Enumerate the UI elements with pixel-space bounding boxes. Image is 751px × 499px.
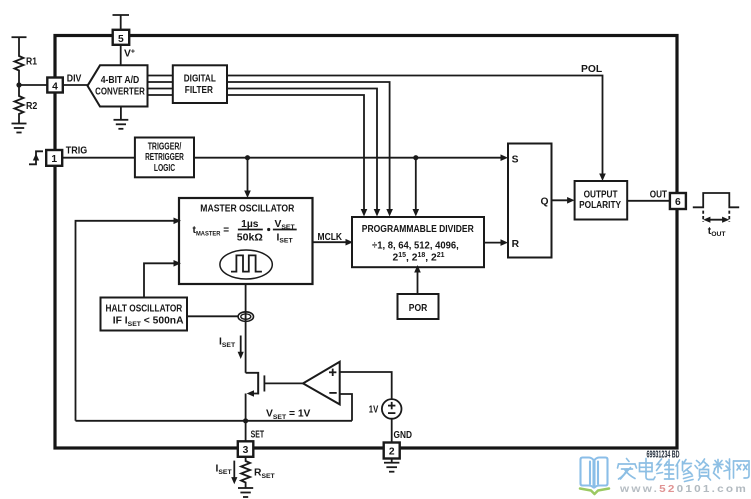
wire pin4 to A/D point (63, 84, 89, 86)
svg-text:4-BIT A/D: 4-BIT A/D (101, 75, 140, 86)
svg-text:Q: Q (540, 197, 548, 208)
ground below RSET (238, 488, 253, 497)
wire Q to output polarity (552, 197, 575, 204)
svg-text:4: 4 (52, 81, 58, 92)
wire node to pin 4 (19, 84, 48, 86)
watermark hanzi wei (657, 459, 675, 479)
supply bar above pin 5 (113, 15, 130, 30)
SR latch (508, 144, 552, 258)
svg-text:OUT: OUT (650, 189, 668, 200)
master oscillator formula tMASTER = 1us/50k * VSET/ISET (193, 219, 297, 245)
watermark hanzi xiu (676, 460, 693, 482)
svg-text:FILTER: FILTER (185, 85, 214, 96)
bus A/D to filter (4 lines) (148, 76, 173, 96)
ISET arrow at RSET (216, 461, 238, 485)
feedback wire left loop into oscillator (76, 218, 182, 421)
output polarity block (575, 181, 628, 220)
svg-text:IF ISET < 500nA: IF ISET < 500nA (113, 316, 184, 328)
svg-text:1µs: 1µs (241, 219, 259, 230)
svg-text:R: R (512, 239, 520, 250)
wire V+ pin5 to A/D (120, 45, 122, 66)
wire POR to divider (414, 265, 421, 294)
resistor R2 (15, 85, 24, 124)
svg-text:SET: SET (251, 430, 265, 441)
wire divider to R input (484, 239, 508, 246)
pin 4 (47, 78, 63, 93)
svg-text:DIGITAL: DIGITAL (184, 74, 216, 85)
output waveform (693, 193, 739, 238)
watermark hanzi liao (714, 459, 731, 479)
wire R1 to node (18, 73, 20, 86)
POR block (398, 294, 439, 319)
svg-text:POLARITY: POLARITY (579, 200, 621, 211)
node A junction (16, 82, 21, 87)
pin 6 (670, 193, 686, 209)
svg-text:GND: GND (394, 430, 413, 441)
watermark hanzi wang (734, 461, 750, 478)
watermark hanzi zi (695, 459, 711, 480)
svg-text:2: 2 (389, 447, 395, 458)
pin 3 (238, 441, 254, 457)
ground below A/D (114, 107, 129, 129)
filter bus line 3 to divider (227, 89, 380, 217)
resistor RSET (241, 457, 275, 488)
resistor R1 (15, 54, 24, 73)
pin 5 (113, 30, 130, 45)
op-amp - input feedback wire (340, 394, 352, 421)
supply bar above R1 (12, 37, 27, 54)
trigger/retrigger logic (135, 138, 194, 178)
wire output polarity to pin 6 (627, 200, 670, 202)
svg-text:R2: R2 (26, 101, 38, 112)
svg-text:www.520101.com: www.520101.com (619, 483, 748, 495)
wire junction down to master oscillator (244, 158, 251, 198)
svg-text:MCLK: MCLK (318, 232, 343, 243)
svg-text:69931234 BD: 69931234 BD (647, 450, 680, 461)
ground below pin 2 (384, 459, 399, 472)
svg-text:5: 5 (118, 34, 124, 45)
svg-text:OUTPUT: OUTPUT (584, 190, 618, 201)
svg-text:TRIG: TRIG (66, 146, 87, 157)
current monitor symbol (238, 312, 253, 322)
svg-text:1: 1 (51, 154, 57, 165)
trigger edge symbol (29, 151, 43, 164)
ISET current arrow (219, 336, 244, 360)
master oscillator U1 (179, 198, 313, 284)
wire mosfet source down to SET (245, 394, 247, 442)
junction node on SET wire (243, 418, 248, 423)
svg-text:POL: POL (581, 64, 602, 75)
MCLK wire to divider (313, 232, 354, 246)
svg-text:LOGIC: LOGIC (154, 163, 176, 174)
wire oscillator down to mosfet (245, 284, 247, 373)
filter bus line 4 to divider (227, 95, 367, 217)
halt oscillator block (101, 298, 188, 331)
digital filter (173, 65, 227, 103)
svg-text:PROGRAMMABLE DIVIDER: PROGRAMMABLE DIVIDER (362, 224, 474, 235)
VSET wire (76, 420, 353, 422)
IC boundary (55, 36, 677, 449)
watermark hanzi jia (618, 459, 637, 480)
watermark hanzi dian (640, 459, 656, 480)
watermark logo book icon (581, 458, 608, 488)
wire halt to current monitor (187, 315, 238, 317)
pin 2 (384, 443, 400, 459)
svg-text:÷1, 8, 64, 512, 4096,: ÷1, 8, 64, 512, 4096, (372, 241, 459, 252)
svg-text:50kΩ: 50kΩ (237, 232, 263, 243)
wire junction down to divider (413, 158, 420, 217)
svg-text:S: S (512, 155, 519, 166)
1V source V1 (369, 399, 402, 419)
watermark book green base (580, 489, 609, 495)
filter bus line 2 to divider (227, 82, 393, 217)
svg-text:3: 3 (243, 445, 249, 456)
wire 1V source to pin 2 (391, 419, 393, 443)
wire pin1 to trigger logic (62, 157, 135, 159)
mosfet Q1 (246, 372, 303, 397)
svg-text:R1: R1 (26, 57, 37, 68)
svg-text:CONVERTER: CONVERTER (95, 86, 145, 97)
svg-text:TRIGGER/: TRIGGER/ (148, 141, 182, 152)
svg-text:1V: 1V (369, 405, 379, 416)
svg-text:DIV: DIV (67, 74, 82, 85)
junction node at master osc drop (245, 155, 250, 160)
halt to oscillator wire (144, 260, 181, 298)
svg-text:MASTER OSCILLATOR: MASTER OSCILLATOR (200, 203, 294, 214)
wire trigger logic to S input (194, 154, 508, 161)
POL net: filter out top line to output polarity (227, 64, 606, 181)
4-bit A/D converter (88, 65, 148, 106)
op-amp U2 (303, 362, 340, 405)
svg-text:POR: POR (409, 303, 428, 314)
pin 1 (46, 150, 62, 166)
junction node at divider drop (413, 155, 418, 160)
svg-text:6: 6 (675, 197, 681, 208)
ground below R2 (12, 124, 27, 133)
svg-text:HALT OSCILLATOR: HALT OSCILLATOR (106, 304, 183, 315)
op-amp + input wire to 1V source (340, 372, 392, 399)
programmable divider (352, 217, 484, 267)
oscillator symbol (ellipse with square wave) (220, 250, 272, 279)
svg-text:RETRIGGER: RETRIGGER (145, 152, 184, 163)
svg-text:VSET = 1V: VSET = 1V (266, 409, 311, 421)
